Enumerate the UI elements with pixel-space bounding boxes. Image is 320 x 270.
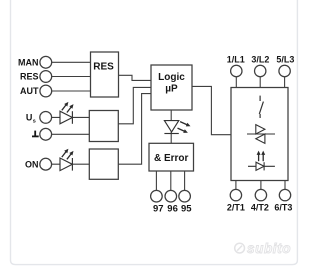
terminal 2/T1 (227, 189, 245, 212)
wire stub 96 (170, 171, 172, 190)
wire stub 95 (184, 171, 186, 190)
wire stub 3/L2 (259, 77, 261, 88)
wire stub 5/L3 (284, 77, 286, 88)
LED opto emitter (248, 162, 275, 170)
svg-text:AUT: AUT (20, 86, 39, 96)
block Logic µP (151, 65, 192, 110)
terminal 3/L2 (251, 54, 269, 76)
wire ground-supply (52, 133, 90, 135)
wire RES-RESbox (52, 76, 91, 78)
svg-text:96: 96 (167, 203, 178, 214)
svg-text:& Error: & Error (154, 153, 189, 164)
svg-text:RES: RES (93, 62, 114, 73)
wire supply-Logic (118, 87, 151, 123)
svg-text:95: 95 (181, 203, 192, 214)
ground terminal (32, 128, 52, 140)
svg-text:97: 97 (153, 203, 164, 214)
wire RESbox-Logic (119, 75, 152, 80)
svg-text:µP: µP (165, 84, 178, 95)
wire ON-ONblock (52, 163, 90, 165)
svg-text:Logic: Logic (158, 72, 185, 83)
wire stub 1/L1 (235, 77, 237, 88)
wire MAN-RESbox (52, 61, 91, 63)
optocoupler light arrows (257, 151, 266, 162)
terminal 95 (179, 190, 192, 214)
svg-text:U: U (26, 112, 33, 122)
terminal 5/L3 (276, 54, 294, 76)
svg-text:2/T1: 2/T1 (227, 203, 245, 213)
terminal AUT (20, 85, 52, 97)
wire stub 4/T2 (260, 181, 262, 190)
terminal 97 (151, 190, 164, 214)
terminal 96 (165, 190, 178, 214)
terminal 6/T3 (274, 189, 292, 212)
switch contact (259, 96, 263, 118)
svg-text:4/T2: 4/T2 (251, 203, 269, 213)
LED Us indicator (60, 102, 74, 124)
LED status (164, 121, 190, 134)
terminal 4/T2 (251, 189, 269, 212)
wire ONblock-Logic (118, 94, 151, 165)
terminal MAN (18, 56, 52, 68)
wire stub 6/T3 (284, 181, 286, 190)
svg-text:ON: ON (25, 159, 39, 169)
terminal RES (20, 71, 52, 83)
output module U2 (231, 88, 288, 181)
svg-text:s: s (33, 118, 36, 124)
svg-text:subito: subito (247, 241, 291, 256)
triac (247, 125, 275, 144)
wire stub 2/T1 (235, 181, 237, 190)
block power supply (89, 111, 118, 142)
terminal Us (26, 112, 52, 125)
wire Us-supply (52, 116, 90, 118)
svg-text:3/L2: 3/L2 (251, 54, 269, 64)
svg-text:6/T3: 6/T3 (274, 203, 292, 213)
LED ON indicator (60, 149, 74, 171)
wire Logic-Error (170, 110, 172, 143)
svg-text:1/L1: 1/L1 (227, 54, 245, 64)
svg-text:RES: RES (20, 72, 39, 82)
wire AUT-RESbox (52, 90, 91, 92)
terminal 1/L1 (227, 54, 245, 76)
block RES (91, 52, 119, 97)
block & Error (149, 143, 194, 171)
svg-text:MAN: MAN (18, 57, 39, 67)
block ON input (89, 149, 118, 179)
wire Logic-output (192, 86, 231, 134)
wire stub 97 (155, 171, 157, 190)
terminal ON (25, 158, 52, 170)
watermark subito (235, 241, 291, 256)
svg-text:5/L3: 5/L3 (276, 54, 294, 64)
